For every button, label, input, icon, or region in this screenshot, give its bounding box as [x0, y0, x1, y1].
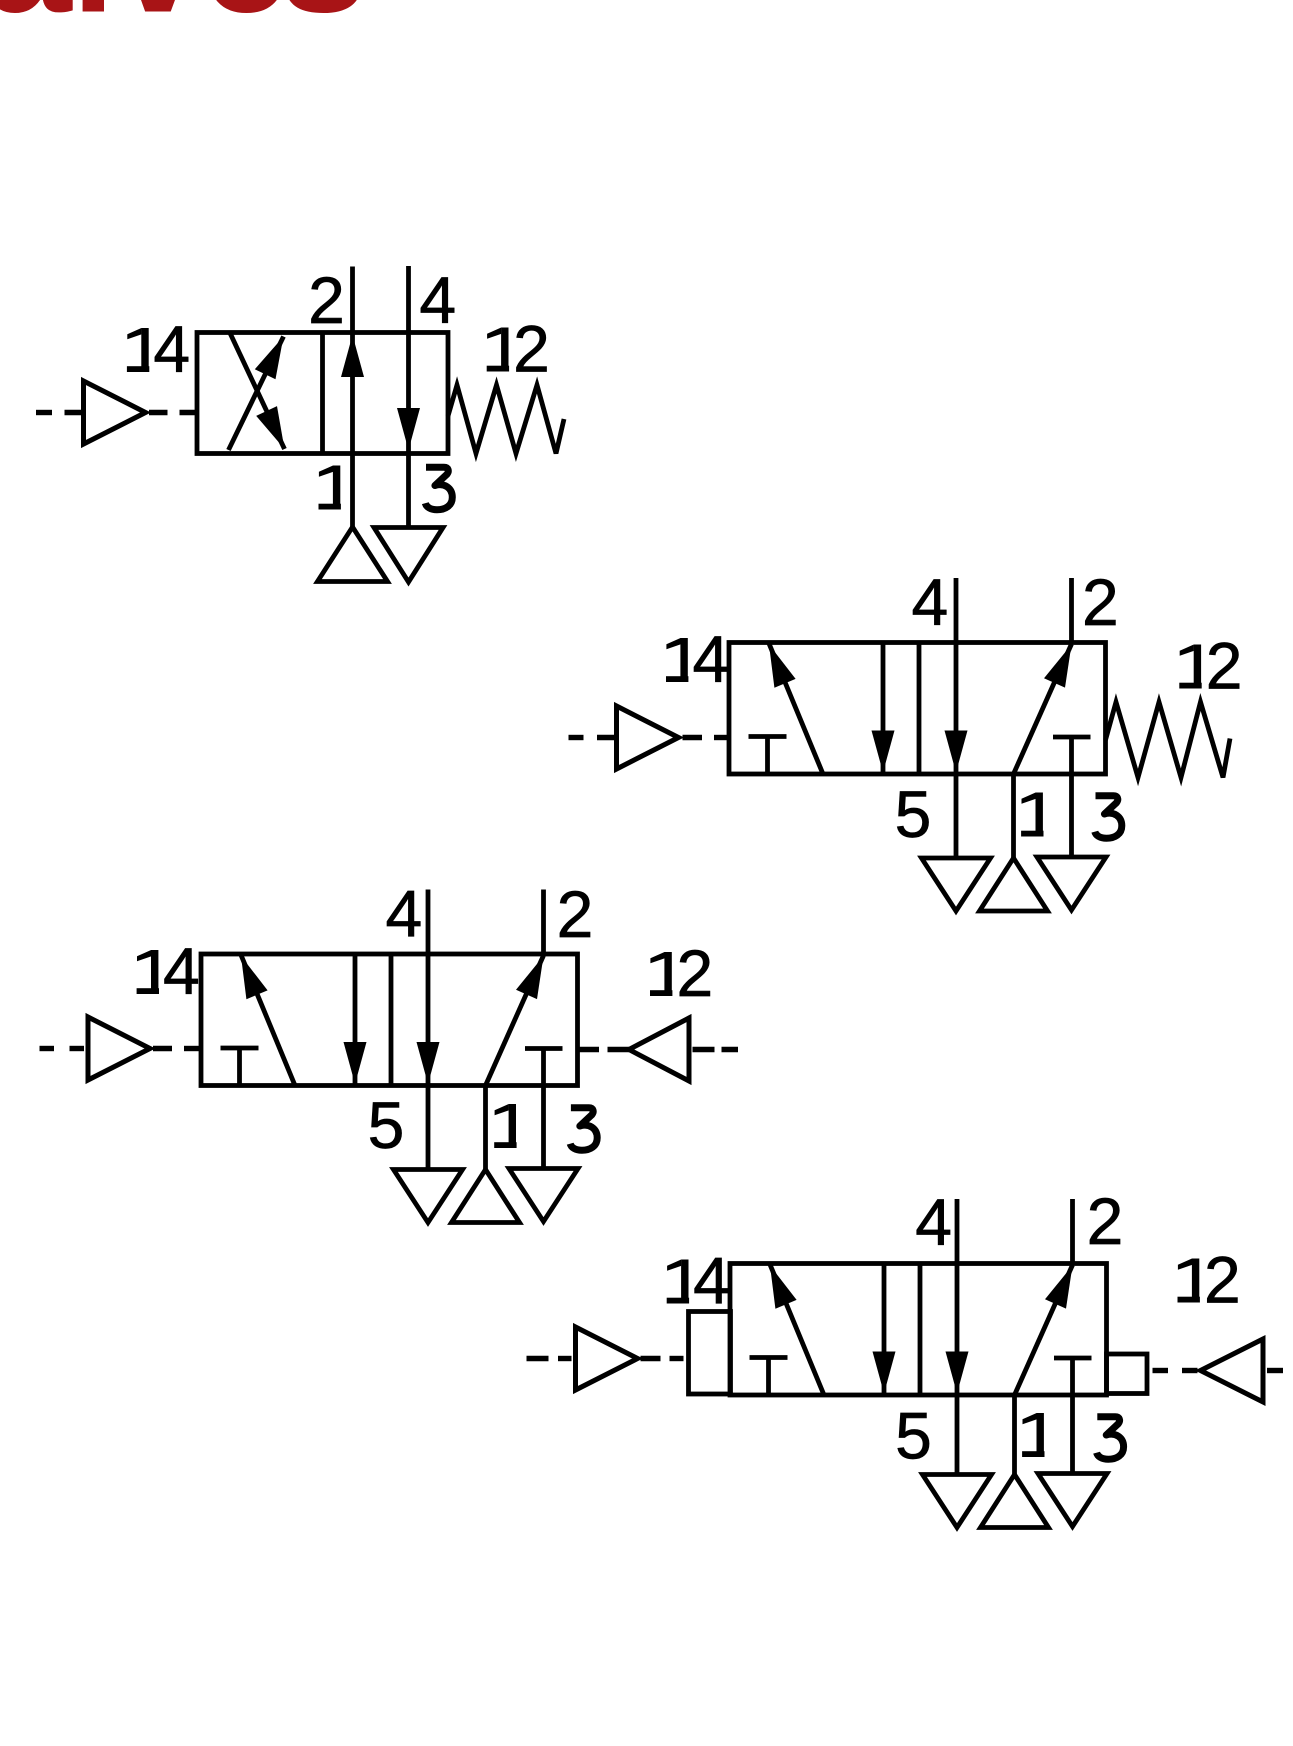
valve U1 port line 4-3 (through flow, arrow down) — [397, 266, 420, 528]
valve U2 label 14 — [666, 622, 729, 696]
valve U4 supply symbol port 1 (triangle up) — [981, 1475, 1049, 1528]
valve U4 5/2-way body — [730, 1264, 1107, 1396]
valve U2 pilot line 14 (dashed) — [569, 735, 730, 740]
valve U1 spring label 12 — [487, 312, 550, 386]
valve U1 crossed flow path 1 (arrow up-right) — [229, 337, 284, 451]
valve U4 flow path 1-2 (right position, arrow up-right) — [1015, 1265, 1073, 1395]
svg-text:5: 5 — [895, 777, 932, 851]
valve U4 label 1 — [1022, 1413, 1044, 1457]
valve U3 pilot line 12 (dashed) — [579, 1047, 738, 1052]
valve U2 supply symbol port 1 (triangle up) — [980, 858, 1048, 911]
valve U2 pilot symbol 14 (triangle) — [617, 706, 679, 769]
valve U4 position divider — [918, 1264, 923, 1396]
valve U2 5/2-way body — [729, 643, 1106, 775]
valve U2 label 3 — [1095, 796, 1122, 839]
valve U3 pilot symbol 12 (triangle) — [629, 1018, 689, 1081]
valve U4 port line 4-5 (right position, arrow down) — [946, 1199, 969, 1475]
valve U4 blocked port T-symbol (right position, port 3) — [1054, 1356, 1092, 1361]
valve U1 supply symbol port 1 (triangle up) — [318, 527, 388, 582]
valve U4 exhaust symbol port 5 (triangle down) — [923, 1475, 992, 1528]
valve U2 label 12 — [1179, 629, 1242, 703]
valve U1 4/2-way body — [197, 333, 448, 454]
valve U4 pilot symbol 14 (triangle) — [576, 1327, 638, 1390]
svg-text:2: 2 — [676, 936, 713, 1010]
valve U2 exhaust symbol port 5 (triangle down) — [922, 858, 991, 911]
valve U2 blocked port T-symbol (right position, port 3) — [1053, 735, 1091, 740]
valve U3 blocked port T-symbol (left position, port 5) — [221, 1048, 259, 1086]
valve U4 port line 2 — [1070, 1199, 1075, 1264]
valve U4 pilot line 12 (dashed) — [1153, 1368, 1284, 1373]
valve U4 label 12 — [1178, 1243, 1241, 1317]
valve U1 pilot symbol 14 (triangle) — [84, 381, 146, 444]
valve U4 pilot adapter block (left) — [689, 1312, 731, 1395]
valve U4 pilot line 14 (dashed) — [527, 1356, 684, 1361]
valve U4 exhaust symbol port 3 (triangle down) — [1038, 1474, 1107, 1527]
svg-text:4: 4 — [163, 934, 200, 1008]
valve U3 port line 1 — [483, 1086, 488, 1170]
valve U4 pilot symbol 12 (triangle) — [1201, 1339, 1264, 1402]
svg-text:s: s — [280, 0, 367, 46]
valve U3 exhaust symbol port 3 (triangle down) — [509, 1169, 578, 1222]
valve U3 position divider — [389, 954, 394, 1086]
valve U3 port line 4-5 (right position, arrow down) — [417, 890, 440, 1170]
valve U4 port line 3 — [1070, 1358, 1075, 1474]
valve U3 port line 3 — [541, 1049, 546, 1169]
valve U3 flow path 1-2 (right position, arrow up-right) — [486, 956, 544, 1086]
valve U2 blocked port T-symbol (left position, port 5) — [749, 737, 787, 775]
valve U3 label 12 — [650, 936, 713, 1010]
valve U1 pilot label 14 — [127, 312, 190, 386]
valve U3 flow path 1-4 (left position, arrow up-left) — [241, 955, 295, 1086]
valve U3 pilot line 14 (dashed) — [40, 1046, 200, 1051]
valve U4 flow path 1-4 (left position, arrow up-left) — [770, 1265, 824, 1396]
valve U4 port line 1 — [1012, 1395, 1017, 1475]
valve U1 crossed flow path 2 (arrow down-right) — [230, 333, 285, 449]
valve U2 port line 2 — [1069, 578, 1074, 643]
svg-text:2: 2 — [1204, 1243, 1241, 1317]
valve U2 flow path 1-2 (right position, arrow up-right) — [1014, 644, 1072, 774]
svg-text:4: 4 — [915, 1185, 952, 1259]
valve U2 port line 4-5 (right position, arrow down) — [945, 578, 968, 858]
svg-text:4: 4 — [385, 877, 422, 951]
valve U1 return spring 12 — [448, 385, 564, 454]
valve U1 port line 2-1 (through flow, arrow up) — [341, 267, 364, 528]
svg-text:Valve: Valve — [0, 0, 289, 46]
valve U2 exhaust symbol port 3 (triangle down) — [1037, 857, 1106, 910]
valve U4 label 3 — [1097, 1417, 1124, 1460]
valve U2 flow path 2-3 (left position, arrow down) — [872, 643, 895, 775]
valve U3 exhaust symbol port 5 (triangle down) — [394, 1170, 463, 1223]
svg-text:2: 2 — [1082, 565, 1119, 639]
valve U2 port line 3 — [1069, 737, 1074, 857]
svg-text:4: 4 — [693, 1244, 730, 1318]
valve U4 pilot adapter block (right) — [1107, 1354, 1148, 1394]
svg-text:2: 2 — [513, 312, 550, 386]
valve U2 return spring 12 — [1106, 702, 1231, 778]
valve U2 label 1 — [1021, 793, 1043, 837]
valve U1 position divider — [320, 333, 325, 454]
valve U4 flow path 2-3 (left position, arrow down) — [873, 1264, 896, 1396]
svg-text:5: 5 — [895, 1399, 932, 1473]
valve U2 flow path 1-4 (left position, arrow up-left) — [769, 644, 823, 775]
valve U3 label 1 — [494, 1104, 516, 1148]
svg-text:4: 4 — [153, 312, 190, 386]
valve U3 5/2-way body — [201, 954, 578, 1086]
svg-text:2: 2 — [557, 877, 594, 951]
valve U3 label 3 — [570, 1108, 597, 1151]
valve U1 port label 1 — [319, 466, 341, 510]
valve U3 blocked port T-symbol (right position, port 3) — [525, 1046, 563, 1051]
svg-text:4: 4 — [911, 565, 948, 639]
valve U3 supply symbol port 1 (triangle up) — [452, 1170, 520, 1223]
svg-text:2: 2 — [1206, 629, 1243, 703]
svg-text:4: 4 — [692, 622, 729, 696]
svg-text:4: 4 — [419, 263, 456, 337]
valve U3 port line 2 — [541, 890, 546, 955]
valve U2 port line 1 — [1011, 774, 1016, 858]
valve U3 label 14 — [137, 934, 200, 1008]
valve U4 blocked port T-symbol (left position, port 5) — [750, 1358, 788, 1396]
valve U3 flow path 2-3 (left position, arrow down) — [344, 954, 367, 1086]
valve U1 pilot line 14 (dashed) — [36, 410, 197, 415]
valve U2 position divider — [917, 643, 922, 775]
svg-text:5: 5 — [368, 1088, 405, 1162]
svg-text:2: 2 — [1087, 1184, 1124, 1258]
svg-text:2: 2 — [308, 263, 345, 337]
valve U1 port label 3 — [425, 467, 452, 510]
valve U1 exhaust symbol port 3 (triangle down) — [374, 528, 443, 583]
valve U4 label 14 — [667, 1244, 730, 1318]
valve U3 pilot symbol 14 (triangle) — [88, 1017, 150, 1080]
